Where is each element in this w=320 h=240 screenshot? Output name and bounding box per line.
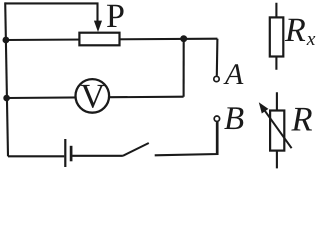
svg-text:P: P	[106, 0, 125, 35]
svg-text:A: A	[223, 58, 244, 91]
svg-text:V: V	[80, 77, 105, 115]
svg-text:x: x	[306, 29, 316, 50]
svg-text:R: R	[284, 12, 306, 49]
svg-text:B: B	[224, 101, 244, 137]
svg-text:R: R	[291, 101, 313, 139]
